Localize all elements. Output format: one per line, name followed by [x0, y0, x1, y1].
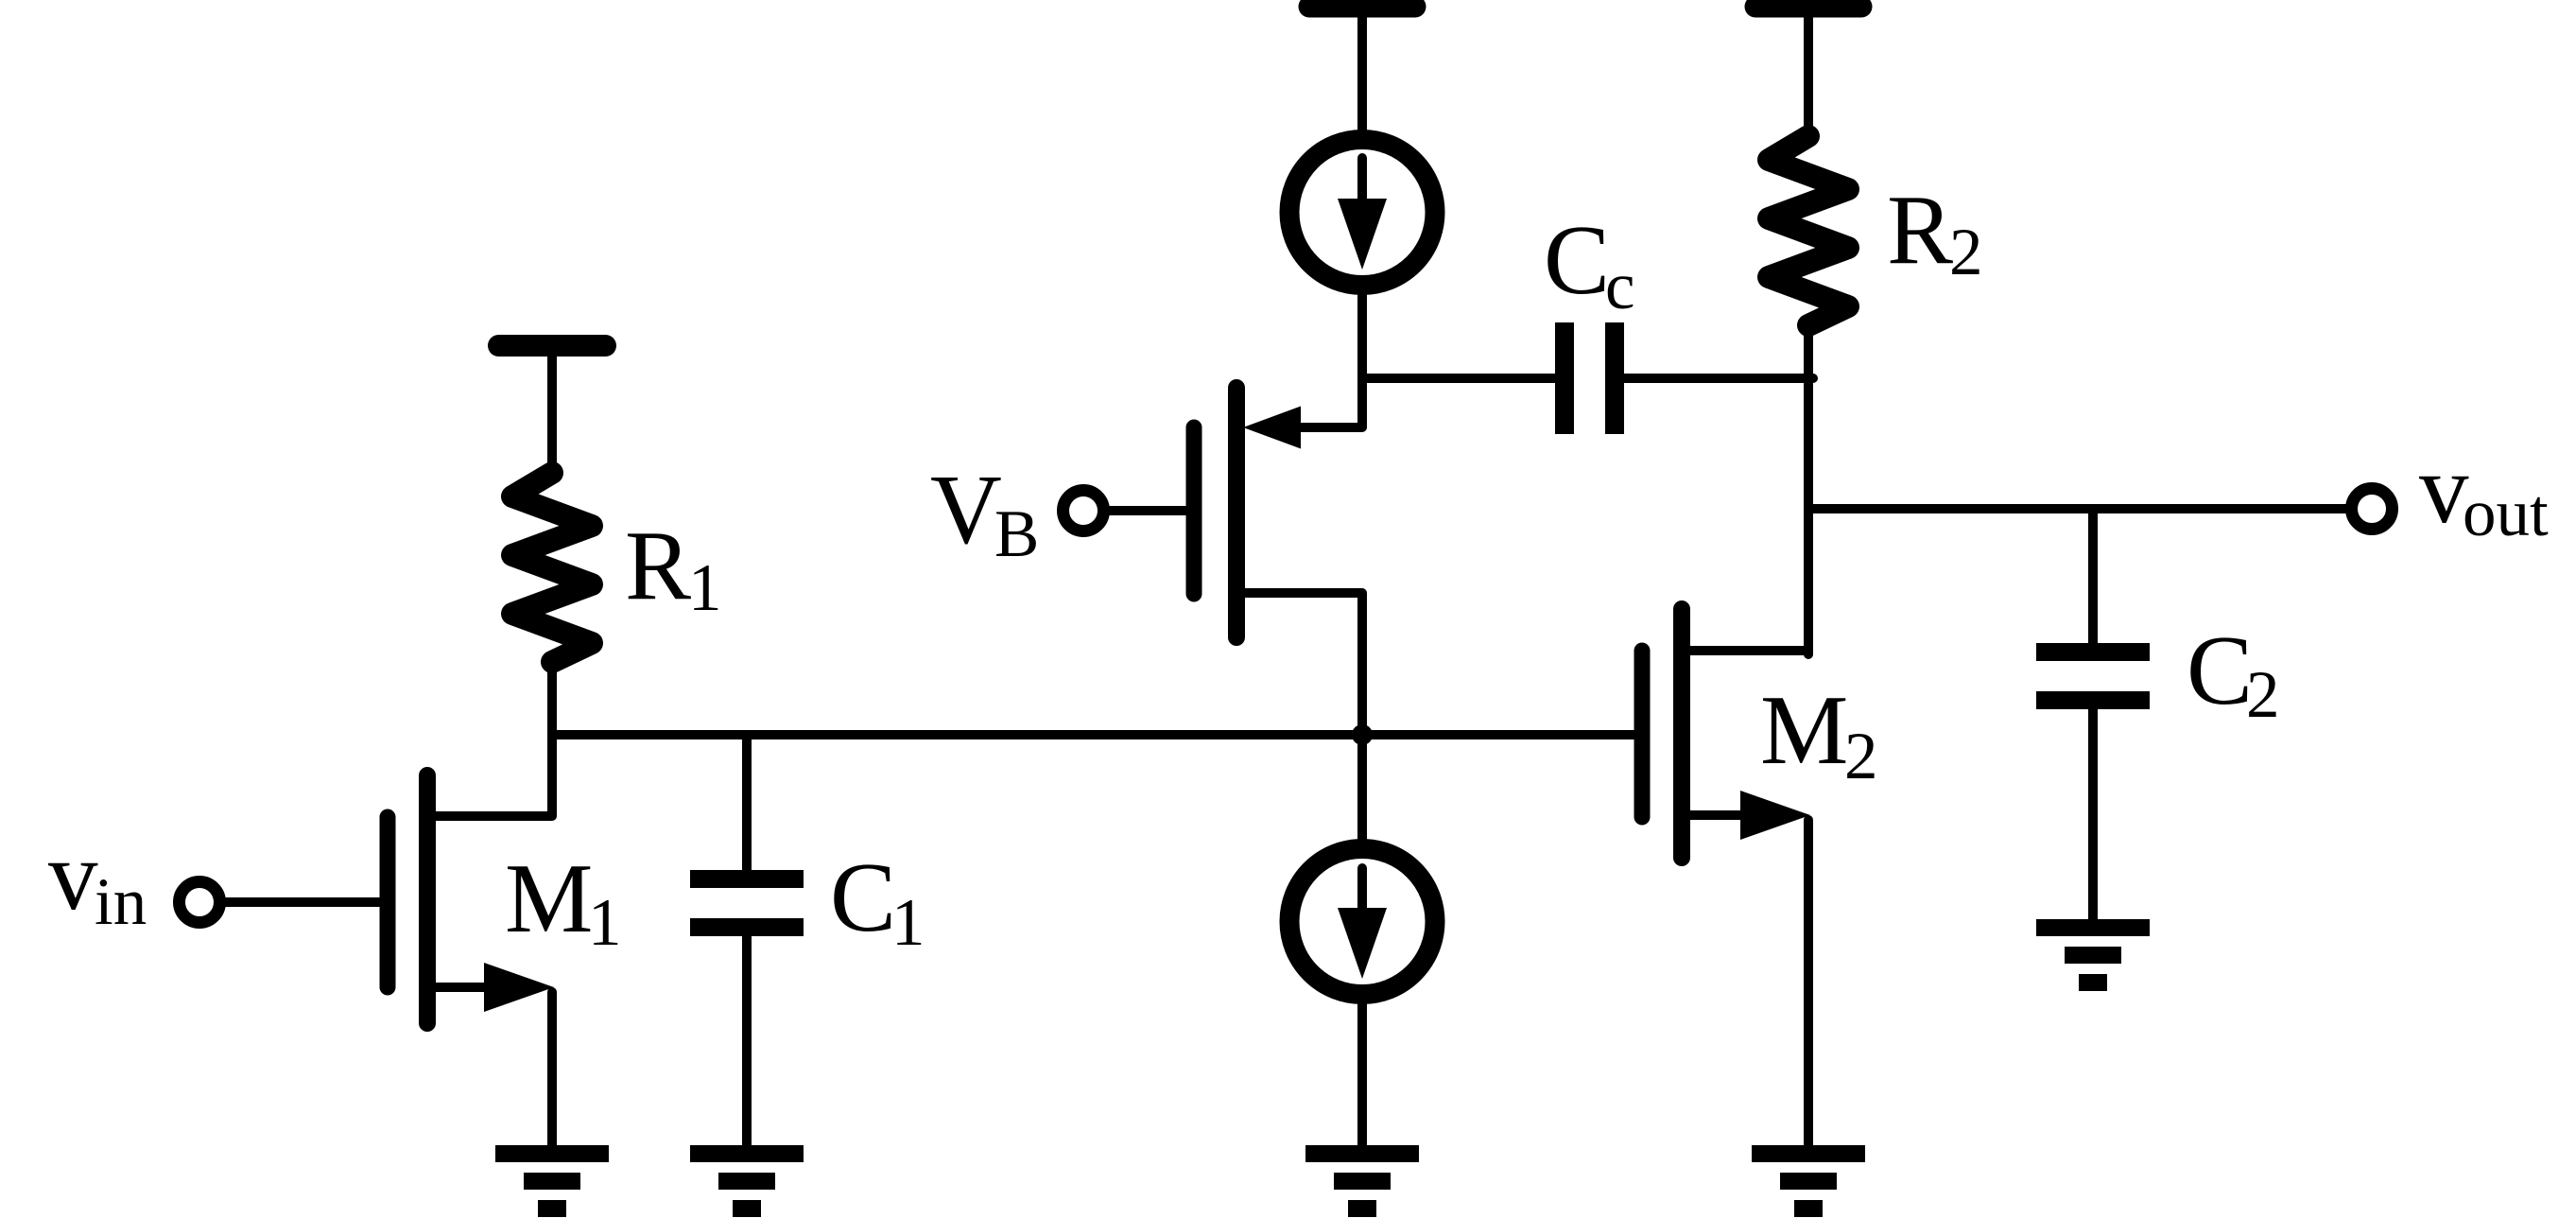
label R1: [625, 510, 722, 625]
svg-text:out: out: [2463, 477, 2549, 550]
power rail VDD left: [499, 346, 606, 479]
power rail VDD middle: [1309, 7, 1415, 134]
power rail VDD right: [1755, 7, 1861, 138]
ground C1: [690, 1145, 804, 1217]
current source I1: [1289, 140, 1435, 286]
ground C2: [2036, 919, 2150, 991]
svg-text:B: B: [994, 497, 1039, 571]
transistor M3 cascode PMOS: [1194, 388, 1362, 737]
wire R1 bottom to node A: [547, 662, 557, 735]
svg-text:C: C: [2187, 615, 2253, 725]
svg-text:C: C: [830, 842, 896, 952]
svg-text:V: V: [930, 454, 1002, 565]
output wire: [1808, 504, 2348, 513]
capacitor C2: [2036, 643, 2150, 921]
svg-text:R: R: [625, 510, 691, 620]
svg-text:2: 2: [1844, 720, 1878, 793]
svg-text:1: 1: [891, 886, 925, 960]
svg-text:C: C: [1544, 204, 1610, 315]
terminal v_in: [180, 882, 382, 923]
ground M2: [1752, 1145, 1865, 1217]
resistor R2: [1769, 136, 1848, 325]
label C2: [2187, 615, 2280, 732]
svg-text:1: 1: [588, 886, 622, 960]
capacitor C1: [690, 870, 804, 1146]
label M2: [1760, 674, 1878, 793]
svg-text:2: 2: [2246, 658, 2280, 732]
capacitor Cc: [1555, 322, 1624, 434]
wire M1 drain: [433, 735, 552, 816]
ground I2: [1305, 1145, 1419, 1217]
transistor M2: [1642, 609, 1810, 1146]
label C1: [830, 842, 925, 960]
svg-text:M: M: [1760, 674, 1848, 785]
terminal v_out: [2352, 489, 2393, 530]
transistor M1: [388, 775, 554, 1146]
label v_in: [48, 820, 147, 939]
current source I2: [1289, 740, 1435, 1146]
svg-text:1: 1: [688, 551, 722, 625]
wire R2 bottom through Cc junction and output node to M2 drain: [1804, 325, 1813, 654]
label R2: [1887, 174, 1983, 289]
svg-text:in: in: [95, 865, 147, 939]
junction dot node A: [1352, 724, 1373, 745]
svg-text:2: 2: [1949, 216, 1983, 289]
wire Cc right: [1622, 374, 1813, 383]
wire Cc left: [1362, 374, 1558, 383]
ground M1: [495, 1145, 609, 1217]
label Cc: [1544, 204, 1635, 323]
wire C1 branch: [742, 735, 752, 872]
wire I1 to M3 source elbow: [1302, 294, 1362, 427]
resistor R1: [512, 473, 592, 662]
label M1: [505, 843, 622, 960]
svg-text:v: v: [48, 820, 98, 931]
terminal V_B: [1063, 491, 1188, 531]
label V_B: [930, 454, 1039, 571]
label v_out: [2419, 433, 2549, 550]
svg-text:c: c: [1605, 250, 1635, 323]
node wire A to M2 gate: [552, 730, 1635, 739]
svg-text:M: M: [505, 843, 593, 953]
wire C2 branch: [2088, 509, 2098, 645]
svg-text:R: R: [1887, 174, 1953, 285]
